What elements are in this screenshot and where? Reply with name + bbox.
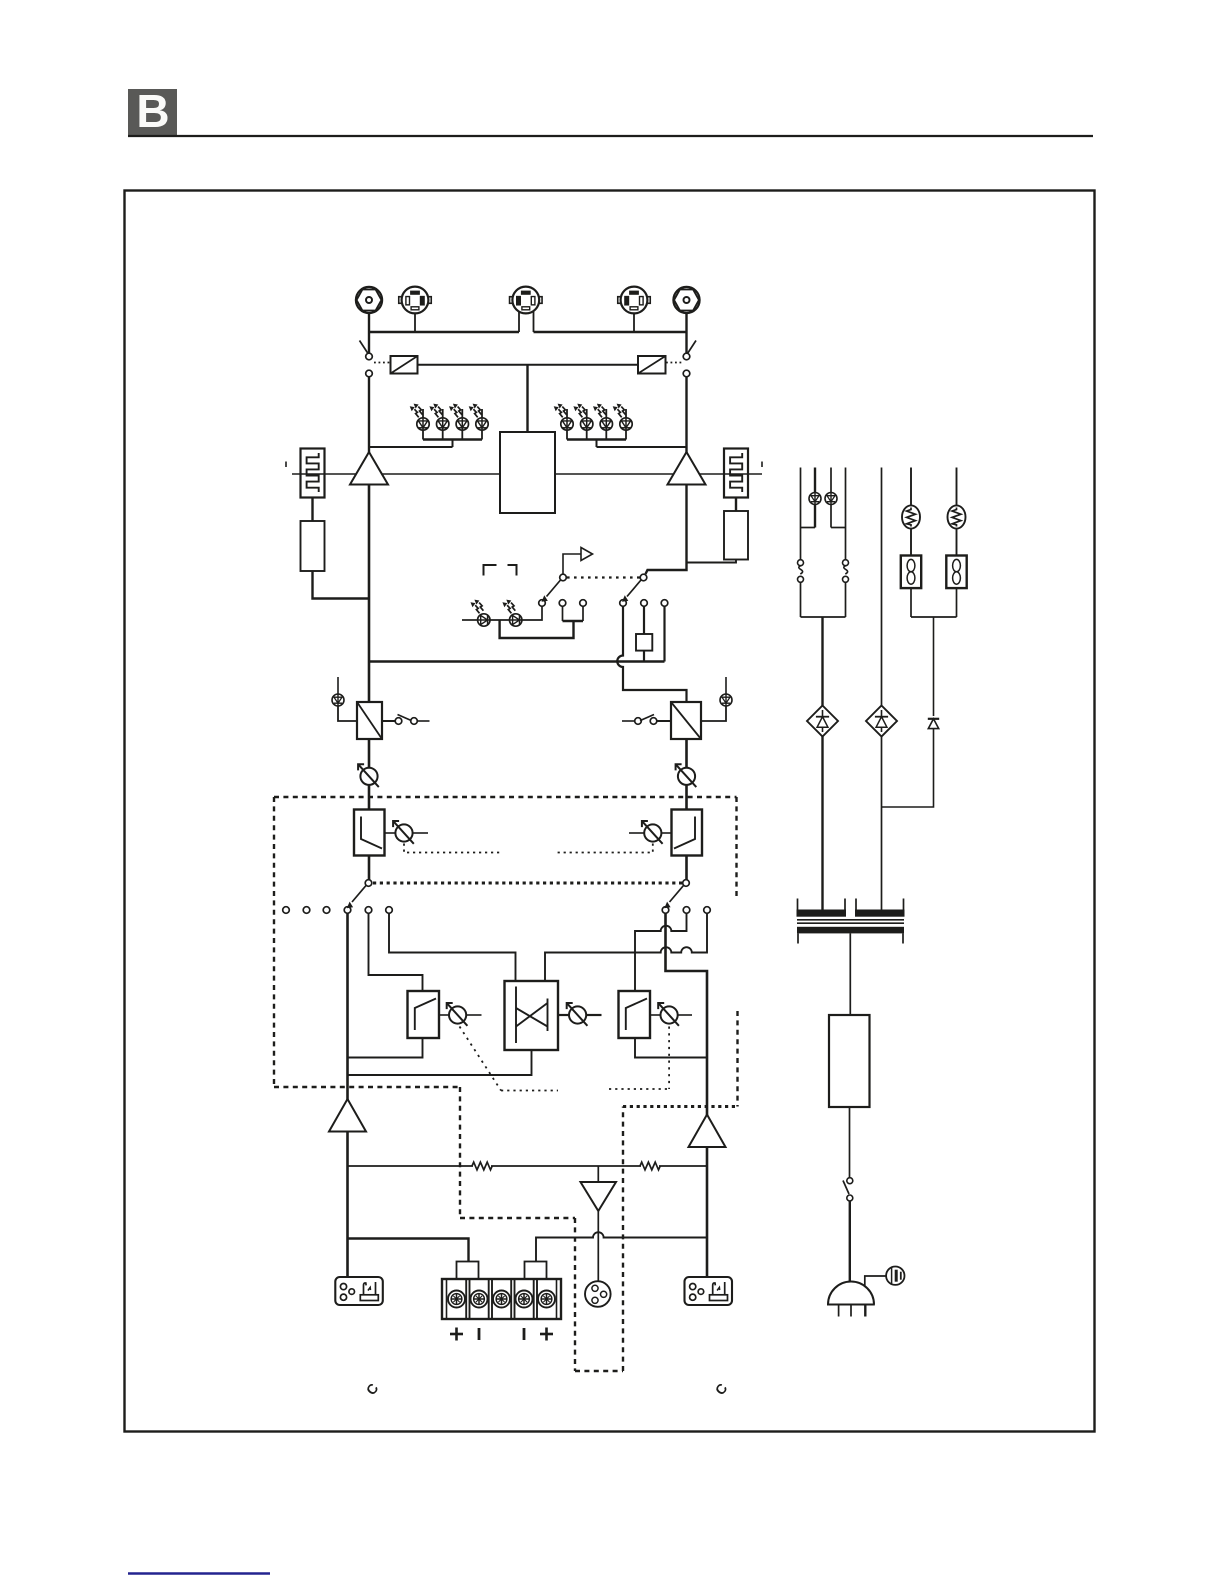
mains plug (827, 1282, 875, 1317)
schematic frame (125, 191, 1095, 1432)
wire: right direct path to power amp (666, 913, 708, 1115)
buffer triangle (monitor) (563, 548, 593, 575)
speaker clamp left (457, 1262, 479, 1280)
monitor contacts right group (620, 600, 668, 607)
wire: node to headphone amp (597, 1166, 599, 1182)
bridge rectifier 1 (807, 706, 838, 737)
control block (center) (500, 432, 555, 513)
wire: right to balance block (two hops) (545, 913, 707, 981)
treble pot right (629, 821, 672, 844)
phones jack socket J1 (356, 287, 382, 313)
mains transformer (797, 899, 905, 944)
dashed control-unit border (274, 797, 738, 1371)
interlock switch right (622, 715, 671, 725)
DIN socket TAPE 1 (399, 287, 432, 314)
power amp right (triangle) (689, 1115, 726, 1148)
wire: relay L to volume pot L (368, 739, 371, 768)
marker glyph left (363, 1380, 382, 1398)
voltage selector (865, 1267, 905, 1288)
wire: record line right (555, 473, 762, 475)
dashed gang bass left (460, 1027, 559, 1091)
headphone amp (inverted triangle) (581, 1182, 617, 1211)
wire: TAPE2 right pin drop (533, 312, 535, 333)
monitor switch pole right: pivot and lever (622, 574, 647, 602)
preamp left (triangle) (350, 452, 388, 485)
switch S1 (left source select) (360, 341, 373, 377)
supply rail 3 with LED (825, 468, 846, 528)
motor pot left (volume) (358, 764, 379, 787)
wire: J2 drop to input bus (685, 313, 687, 353)
bass pot left (439, 1003, 482, 1026)
wire: meander R to resistor R (735, 498, 737, 512)
balance pot (558, 1003, 602, 1026)
wire: left to bass block (369, 913, 423, 991)
motor pot right (volume) (676, 764, 697, 787)
DIN socket AUX (618, 287, 651, 314)
relay K1 (muting left) (391, 356, 418, 374)
wire: tape LED chain (462, 619, 510, 621)
wire: relay R to volume pot R (685, 739, 688, 768)
treble pot left (385, 821, 429, 844)
section badge B (128, 85, 177, 137)
bridge rectifier 2 (866, 706, 897, 737)
wire: left LED group to preamp input (369, 446, 453, 448)
dashed gang bass right (609, 1027, 669, 1090)
heavy dotted gang function switch (373, 882, 682, 885)
wire: S2 to preamp node (685, 377, 687, 456)
wire: power amp L output (346, 1132, 349, 1278)
wire: pot R to tone block R (685, 786, 688, 810)
wire: headphone amp to DIN output (597, 1211, 599, 1282)
wire: TAPE1 drop to input bus (414, 314, 416, 332)
dashed gang link monitor switch (567, 576, 640, 578)
indicator LED group left (4 LEDs) (410, 404, 488, 447)
wire: relay line K1 to K2 (418, 364, 639, 366)
treble block right (672, 810, 703, 856)
speaker clamp right (525, 1262, 547, 1280)
mains filter block (829, 1015, 870, 1107)
speaker socket icon left (335, 1277, 383, 1305)
wire: switch to plug (849, 1201, 851, 1282)
wire: right to bass block (hop over direct) (635, 913, 687, 991)
wire: left direct path to power amp (346, 913, 349, 1100)
marker glyph right (712, 1380, 731, 1398)
wire: S1 to preamp node (368, 377, 370, 456)
corner bracket marks (tape loop) (484, 565, 517, 576)
function switch pivot right (664, 880, 689, 909)
header rule (128, 135, 1093, 137)
dashed gang treble left (404, 844, 500, 853)
wire: join to diode (911, 588, 957, 716)
protection relay right (671, 702, 701, 739)
headphone feed line with resistors (348, 1162, 708, 1170)
speaker terminal strip (442, 1279, 561, 1319)
dashed gang treble right (556, 844, 653, 853)
terminal polarity labels (450, 1328, 553, 1341)
wire: bass R output (635, 1038, 707, 1058)
wire: bridge 1 to transformer (821, 737, 823, 910)
power amp left (triangle) (329, 1099, 366, 1132)
wire: speaker line left (348, 1239, 469, 1262)
wire: resistor R to power node (687, 560, 737, 563)
wire: relay line drop to control block (526, 365, 528, 432)
wire: power amp R output (706, 1147, 709, 1277)
bass pot right (650, 1003, 692, 1026)
wire: balance output (348, 1050, 532, 1075)
function contacts right (662, 907, 710, 914)
wire: TAPE2 left pin drop (518, 312, 520, 333)
svg-text:B: B (136, 85, 169, 137)
supply rail 4 (845, 468, 847, 561)
wire: contact 3 to bus (663, 606, 665, 661)
wire: pot L to tone block L (368, 786, 371, 810)
tick: left line end (285, 462, 287, 468)
supply rail 2 with LED (801, 468, 822, 528)
wire: input bus left segment (368, 331, 519, 333)
dotted link K2 to S2 (666, 362, 682, 364)
tick: right line end (761, 462, 763, 468)
wire: bass L output (348, 1038, 423, 1058)
function switch pivot left (347, 880, 372, 909)
fuse box left (901, 556, 921, 589)
wire: treble R to function switch (685, 856, 688, 880)
supply rail middle (881, 468, 883, 706)
wire: filter to mains switch (849, 1107, 851, 1178)
monitor switch pole left: pivot and lever (542, 574, 567, 602)
heavy dotted link lower right (623, 1105, 738, 1108)
wire: preamp node down to relay 1 (368, 485, 371, 703)
relay K2 (muting right) (638, 356, 666, 374)
supply rail 1 (800, 468, 802, 561)
switch S2 (right source select) (683, 341, 696, 377)
rec-level block left (meander) (301, 449, 325, 498)
function contacts left (344, 907, 392, 914)
mains switch (843, 1178, 853, 1201)
thermal switch left (798, 560, 804, 583)
phones jack socket J2 (673, 287, 699, 313)
wire: treble L to function switch (368, 856, 371, 880)
balance block (505, 981, 559, 1050)
wire: bridge 2 to transformer (881, 737, 883, 910)
interlock switch left (382, 715, 430, 725)
lamp circuit right (948, 468, 966, 556)
treble block left (354, 810, 385, 856)
dotted link S1 to relay K1 (374, 362, 390, 364)
spare contacts left (283, 907, 330, 914)
wire: J1 drop to input bus (368, 313, 370, 353)
wire: input bus right segment (534, 331, 688, 333)
wire: record line left (292, 473, 500, 475)
rec-level block right (meander) (724, 449, 748, 498)
diode D1 (928, 719, 939, 729)
footer rule (128, 1572, 270, 1575)
fuse box right (946, 556, 966, 589)
tape LED 2 (502, 600, 522, 627)
resistor block right (724, 511, 748, 560)
wire: right LED group to preamp input (597, 446, 687, 448)
resistor block left (301, 521, 325, 571)
bass block left (408, 991, 440, 1038)
wire: join to bridge 1 (801, 582, 846, 705)
wire: AUX drop to input bus (633, 314, 635, 332)
wire: secondary centre tap (849, 933, 851, 1015)
speaker socket icon right (685, 1277, 733, 1305)
wire: right pivot to preamp output (646, 485, 687, 575)
main bus to protection relays (369, 660, 665, 663)
bass block right (619, 991, 651, 1038)
wire: tape return loop (500, 606, 583, 638)
protection LED left (332, 677, 357, 721)
wire: contact to tape LEDs (521, 606, 542, 620)
DIN socket TAPE 2 (510, 287, 543, 314)
tape LED 1 (471, 600, 491, 627)
wire: resistor L to preamp node (313, 571, 370, 599)
wire: left to balance block (389, 913, 516, 981)
indicator LED group right (4 LEDs) (554, 404, 633, 447)
thermal switch right (843, 560, 849, 583)
lamp circuit left (902, 468, 920, 556)
wire: speaker line right with hop (536, 1232, 707, 1261)
preamp right (triangle) (668, 452, 706, 485)
monitor contacts left group (539, 600, 587, 607)
wire: diode to transformer line (882, 729, 934, 807)
series box (monitor pad) (636, 606, 652, 661)
protection LED right (701, 677, 732, 721)
protection relay left (357, 702, 382, 739)
wire: contact down with hop over bus (617, 606, 686, 702)
wire: meander L to resistor L (311, 498, 313, 522)
DIN speaker output connector (585, 1281, 611, 1307)
